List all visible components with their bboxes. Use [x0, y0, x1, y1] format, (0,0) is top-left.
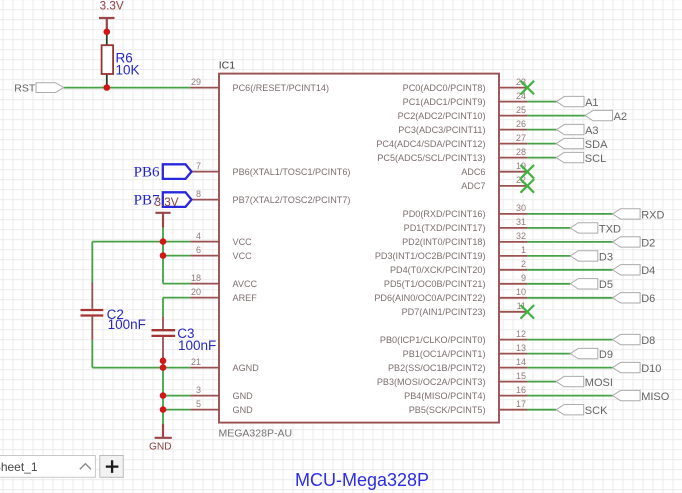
- svg-text:3: 3: [196, 385, 201, 395]
- svg-text:17: 17: [516, 399, 526, 409]
- svg-text:AVCC: AVCC: [233, 279, 258, 289]
- svg-text:A2: A2: [614, 111, 627, 123]
- svg-text:MCU-Mega328P: MCU-Mega328P: [295, 470, 429, 490]
- svg-text:31: 31: [516, 217, 526, 227]
- svg-text:15: 15: [516, 371, 526, 381]
- svg-text:PC4(ADC4/SDA/PCINT12): PC4(ADC4/SDA/PCINT12): [376, 139, 485, 149]
- svg-text:18: 18: [191, 273, 201, 283]
- svg-text:5: 5: [196, 399, 201, 409]
- svg-text:PD2(INT0/PCINT18): PD2(INT0/PCINT18): [402, 237, 485, 247]
- svg-text:GND: GND: [149, 442, 172, 453]
- svg-text:14: 14: [516, 357, 526, 367]
- svg-text:13: 13: [516, 343, 526, 353]
- svg-text:30: 30: [516, 203, 526, 213]
- svg-text:D6: D6: [641, 293, 655, 305]
- svg-text:SCL: SCL: [585, 153, 606, 165]
- svg-text:ADC6: ADC6: [461, 167, 485, 177]
- svg-text:MEGA328P-AU: MEGA328P-AU: [219, 428, 293, 440]
- svg-text:D4: D4: [641, 265, 655, 277]
- svg-text:3.3V: 3.3V: [100, 0, 124, 13]
- svg-text:D10: D10: [641, 363, 661, 375]
- svg-text:GND: GND: [233, 405, 254, 415]
- svg-text:RST: RST: [14, 82, 36, 94]
- svg-text:PB0(ICP1/CLKO/PCINT0): PB0(ICP1/CLKO/PCINT0): [380, 335, 486, 345]
- svg-text:PB2(SS/OC1B/PCINT2): PB2(SS/OC1B/PCINT2): [388, 363, 486, 373]
- svg-text:PB7(XTAL2/TOSC2/PCINT7): PB7(XTAL2/TOSC2/PCINT7): [233, 195, 351, 205]
- svg-text:25: 25: [516, 105, 526, 115]
- svg-text:PD4(T0/XCK/PCINT20): PD4(T0/XCK/PCINT20): [390, 265, 486, 275]
- svg-text:28: 28: [516, 147, 526, 157]
- svg-text:PB6(XTAL1/TOSC1/PCINT6): PB6(XTAL1/TOSC1/PCINT6): [233, 167, 351, 177]
- svg-text:AGND: AGND: [233, 363, 260, 373]
- svg-text:8: 8: [196, 189, 201, 199]
- svg-text:D3: D3: [599, 251, 613, 263]
- svg-text:100nF: 100nF: [108, 317, 146, 332]
- svg-text:MISO: MISO: [641, 391, 670, 403]
- svg-text:TXD: TXD: [599, 223, 621, 235]
- svg-text:SDA: SDA: [585, 139, 608, 151]
- svg-text:20: 20: [191, 287, 201, 297]
- svg-text:PD3(INT1/OC2B/PCINT19): PD3(INT1/OC2B/PCINT19): [375, 251, 486, 261]
- svg-text:A1: A1: [585, 97, 598, 109]
- svg-text:GND: GND: [233, 391, 254, 401]
- svg-text:21: 21: [191, 357, 201, 367]
- svg-text:3.3V: 3.3V: [154, 196, 178, 209]
- svg-text:VCC: VCC: [233, 251, 253, 261]
- svg-text:2: 2: [521, 259, 526, 269]
- svg-text:SCK: SCK: [585, 405, 608, 417]
- svg-text:A3: A3: [585, 125, 598, 137]
- svg-text:1: 1: [521, 245, 526, 255]
- svg-text:PC2(ADC2/PCINT10): PC2(ADC2/PCINT10): [398, 111, 486, 121]
- svg-text:9: 9: [521, 273, 526, 283]
- svg-text:PB6: PB6: [134, 165, 160, 181]
- svg-text:IC1: IC1: [219, 60, 236, 72]
- svg-text:PB1(OC1A/PCINT1): PB1(OC1A/PCINT1): [403, 349, 486, 359]
- svg-text:16: 16: [516, 385, 526, 395]
- svg-text:10K: 10K: [116, 63, 140, 78]
- svg-text:D9: D9: [599, 349, 613, 361]
- svg-text:PD1(TXD/PCINT17): PD1(TXD/PCINT17): [404, 223, 486, 233]
- svg-text:D2: D2: [641, 237, 655, 249]
- svg-text:PC3(ADC3/PCINT11): PC3(ADC3/PCINT11): [398, 125, 485, 135]
- svg-text:29: 29: [191, 77, 201, 87]
- svg-text:Sheet_1: Sheet_1: [0, 460, 38, 474]
- svg-text:12: 12: [516, 329, 526, 339]
- svg-text:4: 4: [196, 231, 201, 241]
- svg-text:PD6(AIN0/OC0A/PCINT22): PD6(AIN0/OC0A/PCINT22): [374, 293, 485, 303]
- svg-text:100nF: 100nF: [178, 338, 216, 353]
- svg-text:ADC7: ADC7: [461, 181, 485, 191]
- svg-text:VCC: VCC: [233, 237, 253, 247]
- svg-text:32: 32: [516, 231, 526, 241]
- svg-text:PC5(ADC5/SCL/PCINT13): PC5(ADC5/SCL/PCINT13): [377, 153, 485, 163]
- svg-text:MOSI: MOSI: [585, 377, 613, 389]
- svg-text:D5: D5: [599, 279, 613, 291]
- svg-text:PB5(SCK/PCINT5): PB5(SCK/PCINT5): [409, 405, 486, 415]
- svg-text:PB3(MOSI/OC2A/PCINT3): PB3(MOSI/OC2A/PCINT3): [377, 377, 486, 387]
- svg-text:6: 6: [196, 245, 201, 255]
- svg-text:PD7(AIN1/PCINT23): PD7(AIN1/PCINT23): [402, 307, 486, 317]
- svg-text:AREF: AREF: [233, 293, 258, 303]
- svg-text:24: 24: [516, 91, 526, 101]
- svg-text:RXD: RXD: [641, 209, 664, 221]
- svg-text:PD0(RXD/PCINT16): PD0(RXD/PCINT16): [403, 209, 486, 219]
- svg-text:26: 26: [516, 119, 526, 129]
- svg-text:D8: D8: [641, 335, 655, 347]
- svg-text:PC1(ADC1/PCINT9): PC1(ADC1/PCINT9): [403, 97, 486, 107]
- svg-text:27: 27: [516, 133, 526, 143]
- svg-text:10: 10: [516, 287, 526, 297]
- svg-text:7: 7: [196, 161, 201, 171]
- svg-text:PB4(MISO/PCINT4): PB4(MISO/PCINT4): [404, 391, 485, 401]
- svg-text:PD5(T1/OC0B/PCINT21): PD5(T1/OC0B/PCINT21): [384, 279, 486, 289]
- svg-text:PC6(/RESET/PCINT14): PC6(/RESET/PCINT14): [233, 83, 330, 93]
- svg-text:PC0(ADC0/PCINT8): PC0(ADC0/PCINT8): [403, 83, 486, 93]
